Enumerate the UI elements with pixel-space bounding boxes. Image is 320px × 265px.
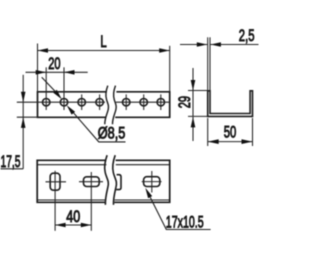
hole 5 [123,99,130,106]
slot 3 horizontal oblong [144,177,160,187]
channel profile [208,91,253,117]
hole 3 [78,99,85,106]
inner fold lines left [37,164,106,166]
hole centreline right [116,101,170,103]
slot 2 centrelines [90,172,92,231]
outline left segment [37,160,106,202]
slot 3 centrelines [151,171,153,193]
hole 1 [43,99,50,106]
svg-text:L: L [100,33,106,51]
svg-text:40: 40 [66,208,80,226]
break line left [105,155,109,205]
17,5 extension ticks [17,116,38,118]
hole 7 [157,99,164,106]
break line right [112,86,116,125]
svg-text:29: 29 [176,96,194,108]
break line right [113,155,117,205]
break line left [105,86,109,125]
rail outline left segment [38,92,107,118]
svg-text:Ø8,5: Ø8,5 [98,125,126,143]
hole 2 [60,99,67,106]
hole 6 [140,99,147,106]
outline right segment [114,160,169,202]
inner fold lines right [116,164,170,166]
svg-text:17x10.5: 17x10.5 [166,213,204,231]
slot 1 centrelines [54,171,56,231]
svg-text:50: 50 [224,123,237,141]
slot 2 horizontal oblong [84,177,100,187]
wall surface extension lines up to 2,5 dim [207,37,209,91]
L dim extension lines [37,44,39,92]
hole 4 [96,99,103,106]
svg-text:2,5: 2,5 [239,27,255,45]
extension lines for 20 dim through holes 1,2 [45,67,47,110]
svg-text:20: 20 [48,55,60,73]
hole vertical ticks [81,94,83,110]
svg-text:17,5: 17,5 [1,153,21,171]
half slot cut by break [116,175,121,190]
hole centreline left [17,101,105,103]
rail outline right segment [115,92,170,118]
slot 1 vertical oblong [50,173,60,190]
